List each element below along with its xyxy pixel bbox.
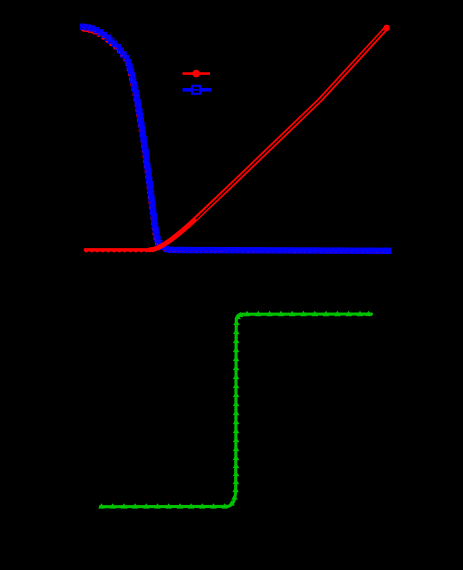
legend entry 2: blue dash inside square xyxy=(194,89,199,91)
legend entry 1: red line xyxy=(183,72,211,75)
curve G1 markers: green filled triangles xyxy=(98,311,372,509)
curve R2: red bend and rising diagonal xyxy=(150,28,387,250)
legend entry 1: red circle marker xyxy=(192,70,200,78)
curve R1 markers: red filled circles along gap curve xyxy=(82,28,389,254)
legend entry 2: blue line xyxy=(183,88,212,92)
curve B1: blue gap curve line xyxy=(83,27,388,251)
legend entry 2: blue open square marker xyxy=(192,86,200,94)
curve R1 start sliver: red visible below blue at start xyxy=(82,30,100,35)
curve R1: red gap curve (under blue), line xyxy=(83,27,388,251)
curve R2: red flat segment xyxy=(85,248,150,251)
curve R2 tip marker xyxy=(383,25,389,31)
curve B1 markers: blue open squares xyxy=(81,24,391,253)
curve R2 core: thin black analytic line over red diagonal xyxy=(196,30,385,219)
curve R2: red chemical-potential curve markers xyxy=(84,26,388,252)
curve G1: green step curve line xyxy=(100,314,371,507)
